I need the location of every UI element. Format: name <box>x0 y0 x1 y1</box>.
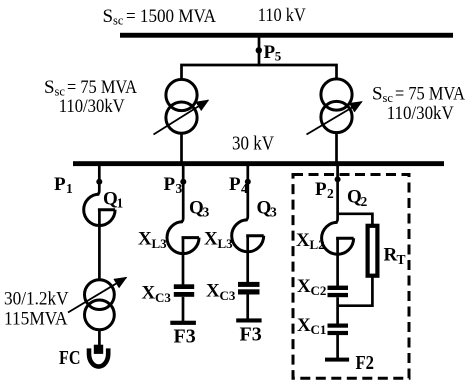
svg-text:X: X <box>142 283 156 304</box>
capacitor XC1 <box>328 324 349 336</box>
svg-text:2: 2 <box>361 194 368 209</box>
svg-text:110/30kV: 110/30kV <box>387 103 454 124</box>
resistor RT <box>368 226 378 276</box>
reactor XL2 <box>322 222 354 254</box>
terminal F2 <box>325 358 349 362</box>
svg-text:2: 2 <box>327 186 334 201</box>
svg-text:L3: L3 <box>152 236 168 251</box>
svg-text:30 kV: 30 kV <box>232 133 274 155</box>
dashed enclosure F2 filter <box>293 175 409 379</box>
svg-text:3: 3 <box>270 205 277 220</box>
svg-text:3: 3 <box>203 205 210 220</box>
label P3 <box>164 174 183 196</box>
svg-text:F2: F2 <box>356 352 375 374</box>
wire branch to transformers <box>182 65 337 79</box>
label Q1 <box>103 189 124 211</box>
wire T3 to furnace FC <box>98 330 101 346</box>
label XC3 (P4) <box>206 281 236 303</box>
label Ssc = 1500 MVA <box>103 6 217 28</box>
svg-text:= 75 MVA: = 75 MVA <box>67 77 137 98</box>
svg-text:FC: FC <box>59 348 81 369</box>
svg-text:F3: F3 <box>240 324 262 346</box>
svg-text:C2: C2 <box>311 283 327 298</box>
capacitor XC3 (P4 feeder) <box>238 282 260 295</box>
svg-text:P: P <box>264 42 276 63</box>
svg-text:C3: C3 <box>220 288 236 303</box>
terminal F3 (P4 feeder) <box>236 318 261 322</box>
wire XL3 to capacitor XC3 (P4) <box>246 236 249 283</box>
label Q3 (P3 feeder) <box>189 198 210 220</box>
svg-text:X: X <box>296 230 310 251</box>
svg-text:P: P <box>229 174 241 195</box>
reactor XL3 (P4 feeder) <box>232 220 264 252</box>
svg-text:X: X <box>297 315 311 336</box>
svg-text:R: R <box>384 245 398 266</box>
label XL3 (right) <box>204 229 233 251</box>
svg-text:X: X <box>138 229 152 250</box>
label XC1 <box>297 315 326 337</box>
node P4 <box>245 179 251 185</box>
label XC2 <box>297 276 326 298</box>
bus 30 kV <box>73 161 444 166</box>
label P5 <box>264 42 282 64</box>
bus 110 kV <box>120 33 453 38</box>
terminal F3 (P3 feeder) <box>170 321 196 325</box>
svg-text:1: 1 <box>66 181 73 196</box>
svg-text:P: P <box>164 174 176 195</box>
svg-text:5: 5 <box>275 48 282 63</box>
wire XC3 to F3 terminal (P4) <box>246 294 249 318</box>
svg-text:L2: L2 <box>310 237 325 252</box>
svg-text:110 kV: 110 kV <box>258 5 306 26</box>
wire XC3 to F3 terminal (P3) <box>182 297 185 321</box>
svg-text:S: S <box>103 6 114 27</box>
capacitor XC2 <box>328 286 349 298</box>
node P2 <box>335 176 341 182</box>
wire bus to node P5 <box>258 38 261 67</box>
label Ssc = 75 MVA (left) <box>44 77 137 99</box>
wire XC2 to junction <box>336 297 339 324</box>
wire XL3 to capacitor XC3 (P3) <box>182 238 185 285</box>
svg-text:C1: C1 <box>311 322 327 337</box>
wire branch to resistor RT <box>338 214 373 225</box>
svg-text:F3: F3 <box>174 325 196 347</box>
svg-text:1: 1 <box>117 196 124 211</box>
wire Q1 to furnace transformer <box>98 210 101 280</box>
wire RT return to junction <box>338 277 373 306</box>
node P3 <box>180 179 186 185</box>
svg-text:= 75 MVA: = 75 MVA <box>395 84 465 105</box>
label XL3 (left) <box>138 229 167 251</box>
capacitor XC3 (P3 feeder) <box>174 284 194 297</box>
svg-text:sc: sc <box>113 14 124 28</box>
svg-text:30/1.2kV: 30/1.2kV <box>4 288 69 309</box>
wire bus to breaker Q3b <box>245 166 248 220</box>
svg-text:= 1500 MVA: = 1500 MVA <box>126 6 216 27</box>
svg-text:P: P <box>54 174 66 195</box>
wire XL2 to capacitor XC2 <box>336 238 339 286</box>
svg-text:S: S <box>44 77 55 98</box>
wire bus to breaker Q3a <box>180 166 183 222</box>
wire bus to breaker Q1 <box>96 166 99 195</box>
label P2 <box>315 179 334 201</box>
svg-text:L3: L3 <box>218 236 234 251</box>
wire XC1 to F2 terminal <box>336 335 339 358</box>
node P5 <box>256 47 262 53</box>
transformer T2 (right 110/30kV) <box>307 79 362 135</box>
transformer T1 (left 110/30kV) <box>154 79 209 134</box>
label Ssc = 75 MVA (right) <box>372 84 465 106</box>
label Q3 (P4 feeder) <box>257 198 278 220</box>
svg-text:110/30kV: 110/30kV <box>59 96 125 117</box>
svg-text:X: X <box>297 276 311 297</box>
label Q2 <box>347 187 368 209</box>
reactor XL3 (P3 feeder) <box>167 222 199 254</box>
label XC3 (P3) <box>142 283 172 305</box>
wire T1 to 30kV bus <box>180 133 183 162</box>
svg-text:115MVA: 115MVA <box>4 309 68 330</box>
furnace FC electrode <box>94 345 103 354</box>
breaker Q1 <box>84 194 115 225</box>
label P1 <box>54 174 73 196</box>
svg-text:S: S <box>372 84 383 105</box>
label XL2 <box>296 230 325 252</box>
svg-text:X: X <box>204 229 218 250</box>
label P4 <box>229 174 248 196</box>
svg-text:3: 3 <box>176 181 183 196</box>
furnace FC crucible <box>89 348 108 366</box>
node P1 <box>96 179 102 185</box>
wire T2 to 30kV bus <box>335 133 338 162</box>
transformer T3 (30/1.2kV 115MVA) <box>68 278 126 330</box>
svg-text:X: X <box>206 281 220 302</box>
svg-text:P: P <box>315 179 327 200</box>
svg-text:C3: C3 <box>155 290 171 305</box>
label RT <box>384 245 406 267</box>
svg-text:T: T <box>397 252 406 267</box>
svg-text:4: 4 <box>241 181 248 196</box>
wire bus to breaker Q2 <box>335 166 338 223</box>
